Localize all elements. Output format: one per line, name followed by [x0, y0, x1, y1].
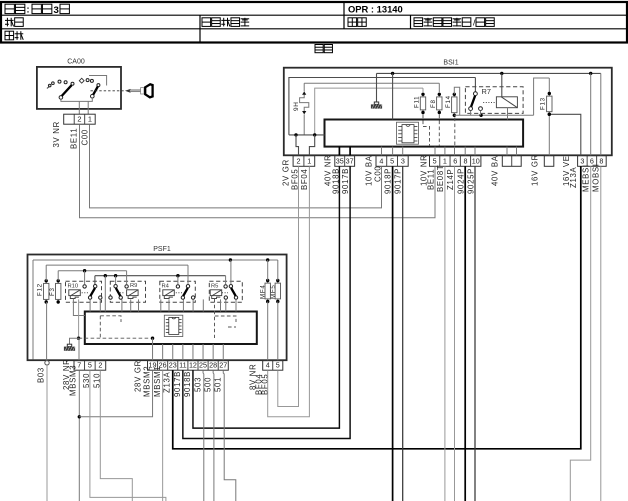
svg-text:9024P: 9024P [456, 168, 465, 194]
svg-text:F13: F13 [539, 97, 546, 110]
svg-text:25: 25 [199, 361, 207, 370]
svg-text:F8: F8 [430, 99, 437, 108]
svg-text:1: 1 [443, 157, 447, 166]
svg-text:23: 23 [169, 361, 177, 370]
svg-text:OPR : 13140: OPR : 13140 [348, 4, 403, 15]
svg-text:Z13A: Z13A [163, 371, 172, 393]
svg-text:2V GR: 2V GR [281, 159, 290, 186]
svg-text:MBSM2: MBSM2 [142, 366, 151, 397]
svg-text:1: 1 [307, 157, 311, 166]
svg-text:4: 4 [379, 157, 383, 166]
svg-text:16V GR: 16V GR [530, 154, 539, 186]
svg-text:BE08T: BE08T [436, 165, 445, 192]
svg-text:9018B: 9018B [183, 371, 192, 397]
svg-text:501: 501 [214, 377, 223, 392]
svg-text:503: 503 [193, 377, 202, 392]
svg-text:35: 35 [336, 157, 344, 166]
svg-text:5: 5 [390, 157, 394, 166]
svg-text:MBSM1: MBSM1 [153, 366, 162, 397]
svg-text:9025P: 9025P [466, 168, 475, 194]
svg-text:40V BA: 40V BA [490, 155, 499, 186]
svg-text:9017P: 9017P [394, 168, 403, 194]
svg-text:27: 27 [219, 361, 227, 370]
svg-text:1: 1 [88, 115, 92, 124]
svg-text:F11: F11 [414, 96, 421, 108]
svg-text:28V GR: 28V GR [133, 360, 142, 392]
svg-text:Z14P: Z14P [446, 169, 455, 190]
svg-text:C00: C00 [373, 166, 382, 182]
svg-text:3V NR: 3V NR [52, 121, 61, 147]
svg-text:CA00: CA00 [67, 59, 85, 66]
svg-text:BF05: BF05 [261, 374, 270, 395]
svg-text:4: 4 [266, 361, 270, 370]
svg-text:28: 28 [209, 361, 217, 370]
svg-text:10V BA: 10V BA [364, 155, 373, 186]
svg-text:BE11: BE11 [427, 169, 436, 190]
svg-text:9H: 9H [293, 101, 300, 111]
svg-text:B03: B03 [36, 367, 45, 383]
svg-text:500: 500 [204, 377, 213, 392]
svg-text:MOBSI: MOBSI [592, 163, 601, 192]
svg-text:8: 8 [463, 157, 467, 166]
svg-text:Z13A: Z13A [569, 166, 578, 188]
svg-text:3: 3 [401, 157, 405, 166]
svg-text:MBSM3: MBSM3 [68, 365, 77, 396]
svg-text:2: 2 [77, 115, 81, 124]
svg-text:6: 6 [453, 157, 457, 166]
svg-text:R5: R5 [211, 284, 218, 290]
svg-text:PSF1: PSF1 [153, 246, 171, 253]
svg-text:BSI1: BSI1 [443, 60, 458, 67]
svg-text::: : [27, 4, 30, 14]
svg-text:R7: R7 [482, 87, 491, 96]
svg-text:5: 5 [88, 361, 92, 370]
svg-text:10: 10 [472, 157, 480, 166]
svg-text:9018P: 9018P [383, 168, 392, 194]
svg-text:9017B: 9017B [173, 371, 182, 397]
svg-text:BF05: BF05 [290, 169, 299, 190]
svg-text:F14: F14 [445, 95, 452, 108]
svg-text:F3: F3 [49, 287, 56, 296]
svg-text:R10: R10 [68, 284, 79, 290]
svg-text:F12: F12 [36, 283, 43, 296]
svg-text:C00: C00 [80, 129, 89, 145]
svg-text:MEBSI: MEBSI [582, 164, 591, 192]
svg-text:BE11: BE11 [70, 128, 79, 149]
svg-text:BF04: BF04 [300, 169, 309, 190]
svg-text:R9: R9 [130, 283, 137, 289]
svg-text:3: 3 [54, 5, 59, 16]
svg-text:7: 7 [77, 361, 81, 370]
svg-text:2: 2 [297, 157, 301, 166]
svg-text:R4: R4 [162, 284, 170, 290]
svg-text:37: 37 [346, 157, 354, 166]
svg-text:5: 5 [433, 157, 437, 166]
svg-text:9017B: 9017B [341, 168, 350, 194]
svg-text:5: 5 [276, 361, 280, 370]
svg-text:2: 2 [98, 361, 102, 370]
svg-text:11: 11 [179, 361, 186, 370]
svg-text:12: 12 [189, 361, 197, 370]
